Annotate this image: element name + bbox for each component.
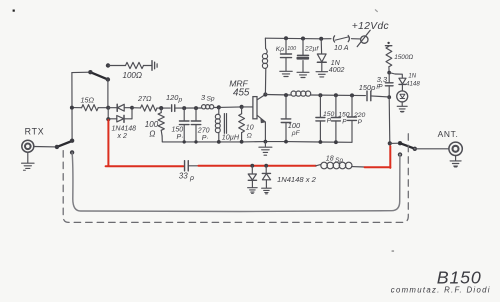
resistor 15Ω	[82, 105, 99, 111]
label 150 P (#1)	[172, 126, 184, 141]
label RTX	[25, 126, 45, 136]
label 220 P	[353, 112, 366, 126]
svg-text:100: 100	[288, 121, 301, 130]
svg-text:15Ω: 15Ω	[81, 96, 95, 105]
svg-text:4148: 4148	[406, 81, 420, 88]
label 150 P (out1)	[323, 111, 335, 125]
label 18 Sp	[326, 156, 344, 164]
label 10µH	[222, 133, 240, 142]
capacitor 150p output #1	[316, 95, 325, 142]
svg-text:1500Ω: 1500Ω	[394, 54, 413, 61]
capacitor 3,3P (series in riser)	[385, 73, 393, 97]
node clamp D1 junction dot	[250, 164, 254, 168]
capacitor 220p output	[348, 95, 357, 142]
inductor 18Sp	[321, 162, 352, 169]
svg-text:ρF: ρF	[291, 130, 301, 137]
inductor core lines	[224, 114, 226, 134]
wire 27Ω to node C	[157, 107, 170, 109]
node G junction dot	[240, 105, 244, 109]
title B150	[437, 267, 482, 287]
label 10 A	[334, 43, 349, 52]
svg-text:150: 150	[172, 126, 184, 133]
wire emitter to rail	[264, 122, 266, 142]
wire choke to +12 rail	[265, 38, 267, 54]
wire red path horizontal mid	[198, 165, 315, 167]
svg-text:100Ω: 100Ω	[123, 71, 142, 80]
lamp LED indicator	[397, 91, 408, 106]
wire red path horizontal left	[106, 165, 184, 167]
svg-text:P·: P·	[202, 135, 209, 142]
label 22µf	[304, 46, 319, 53]
wire switch to ANT connector	[415, 148, 449, 150]
capacitor Kp 100 (bypass)	[281, 38, 292, 71]
node C junction dot	[159, 106, 163, 110]
svg-text:P: P	[342, 119, 347, 126]
svg-text:1N4148 x 2: 1N4148 x 2	[277, 175, 317, 184]
svg-text:22µf: 22µf	[304, 46, 319, 53]
wire red path vertical right (up to ANT node)	[389, 146, 391, 168]
wire diode-pair right vertical	[131, 108, 133, 119]
ground (RTX connector)	[22, 152, 35, 170]
label 120p	[166, 93, 183, 104]
wire red path vertical (node A2 down)	[107, 120, 109, 166]
svg-text:Ω: Ω	[149, 130, 155, 139]
svg-text:Kρ: Kρ	[276, 46, 284, 53]
label ANT.	[438, 129, 459, 139]
diode 1N4148 clamp (right, points up)	[262, 166, 270, 188]
svg-text:Sρ: Sρ	[335, 157, 343, 164]
switch S1a lower contact dot	[106, 77, 110, 81]
switch S1c pivot dot	[55, 145, 59, 149]
label 27Ω	[137, 94, 152, 103]
connector +12Vdc (circle with slash)	[357, 30, 370, 46]
wire top-switch pivot stub	[72, 71, 91, 73]
svg-text:120: 120	[166, 93, 179, 102]
subtitle commutaz. R.F. Diodi	[391, 285, 491, 294]
svg-text:ρ: ρ	[189, 175, 194, 182]
svg-text:10µH: 10µH	[222, 133, 240, 142]
svg-text:P·: P·	[177, 134, 184, 141]
svg-text:100: 100	[287, 46, 296, 52]
wire S1a to main line	[107, 80, 109, 108]
svg-text:33: 33	[179, 172, 188, 181]
sideways ground (100Ω load)	[152, 61, 157, 71]
fuse F1 10A	[333, 36, 360, 43]
wire riser node I to ANT node	[388, 97, 391, 143]
svg-text:RTX: RTX	[25, 126, 45, 136]
resistor 100Ω termination	[126, 62, 144, 68]
stray speck near title	[392, 250, 395, 252]
svg-text:270: 270	[197, 127, 210, 134]
svg-text:Ω: Ω	[247, 132, 252, 139]
node D junction dot	[182, 106, 186, 110]
wire 15Ω to node A	[98, 107, 108, 109]
ground (1N4002)	[316, 72, 328, 77]
switch S1c lever (RTX)	[57, 141, 72, 147]
label 100Ω	[123, 71, 142, 80]
svg-text:x 2: x 2	[117, 133, 127, 140]
dashed linkage (ganged switches)	[63, 132, 408, 223]
wire 150pF to riser	[371, 96, 389, 97]
wire emitter ground rail	[162, 141, 352, 144]
node I junction dot	[387, 95, 391, 99]
node A junction dot	[106, 106, 110, 110]
inductor RF choke (collector feed)	[262, 54, 267, 69]
switch S1b pivot dot	[413, 147, 417, 151]
inductor L2 output (series)	[291, 91, 311, 96]
switch S1c bypass contact dot	[70, 150, 74, 154]
label 270 P	[197, 127, 210, 142]
label +12Vdc	[352, 21, 389, 32]
diode D1 1N4148 (upper, cathode left)	[108, 104, 132, 111]
node cap1 junction dot	[318, 93, 322, 97]
stray ink speck	[13, 10, 15, 12]
switch S1b bypass contact dot	[398, 152, 402, 156]
label 150p F	[359, 83, 381, 92]
label 1500Ω	[394, 54, 413, 61]
label MRF 455	[229, 78, 250, 98]
inductor 10µH choke (to rail)	[215, 107, 220, 141]
ground (22µF)	[297, 72, 309, 77]
svg-text:100: 100	[145, 120, 159, 129]
svg-text:10: 10	[246, 125, 254, 132]
connector RTX (coax)	[22, 140, 34, 152]
svg-text:+12Vdc: +12Vdc	[352, 21, 389, 32]
wire +12V rail	[265, 37, 331, 40]
node 15Ω tee junction dot	[70, 106, 74, 110]
switch S1b lever	[400, 143, 415, 149]
resistor 27Ω	[141, 105, 158, 111]
ground (clamp left)	[248, 188, 258, 194]
capacitor 22µF electrolytic	[297, 39, 310, 72]
wire bypass (RTX to ANT, gray)	[72, 152, 400, 211]
label 3,3 P	[377, 75, 388, 90]
label 15Ω	[81, 96, 95, 105]
wire 18Sp to red	[352, 166, 365, 168]
label 3Sp	[201, 93, 215, 103]
svg-text:10 A: 10 A	[334, 43, 349, 52]
resistor 100Ω shunt (vertical)	[158, 108, 164, 142]
connector ANT (coax)	[449, 142, 462, 155]
diode 1N4002 (supply clamp)	[317, 39, 326, 71]
wire RTX-switch riser (vertical x=72 from top switch to RTX switch contact)	[71, 73, 73, 141]
transistor Q1 emitter lead	[257, 115, 265, 122]
label 1N 4002	[329, 60, 345, 74]
wire ANT node to switch contact	[390, 142, 400, 144]
node red-start junction dot	[106, 117, 110, 121]
svg-text:P: P	[358, 119, 363, 126]
ground (Kp cap)	[280, 71, 293, 76]
svg-text:455: 455	[233, 88, 250, 99]
wire collector riser	[264, 69, 266, 95]
capacitor 150p F (series output)	[367, 91, 371, 101]
ground (ANT connector)	[450, 156, 461, 167]
switch S1a upper contact dot	[106, 63, 110, 67]
supply tap symbol above 1500Ω	[385, 42, 391, 46]
switch S1b contact dot (amp side)	[398, 141, 402, 145]
label 33p	[179, 172, 194, 182]
label 10 Ω	[246, 125, 254, 140]
node F junction dot	[217, 105, 221, 109]
svg-text:commutaz. R.F. Diodi: commutaz. R.F. Diodi	[391, 285, 491, 294]
wire red to 18Sp coil	[316, 164, 321, 165]
ground (clamp right)	[262, 188, 272, 194]
svg-text:4002: 4002	[329, 67, 345, 74]
svg-text:150ρ: 150ρ	[359, 83, 376, 92]
inductor L1 3Sp (series)	[202, 105, 214, 109]
svg-text:B150: B150	[437, 267, 482, 287]
resistor 10Ω (base shunt)	[239, 107, 245, 142]
node Kp junction dot	[284, 36, 288, 40]
wire node B to 27Ω	[132, 107, 141, 109]
node cap2 junction dot	[334, 93, 338, 97]
node H junction dot	[387, 71, 391, 75]
switch S1a pivot dot	[88, 70, 92, 74]
node 1N4002 junction dot	[319, 37, 323, 41]
ground (LED)	[397, 106, 407, 112]
label 150 P (out2)	[338, 112, 350, 126]
switch S1a lever (input selector, thrown down)	[90, 72, 107, 79]
svg-text:p: p	[178, 97, 183, 104]
diode 1N4148 (indicator feed)	[399, 78, 406, 91]
wire collector output line	[265, 94, 291, 97]
diode D2 1N4148 (lower, cathode right)	[108, 115, 132, 122]
capacitor 150p output #2	[331, 95, 340, 142]
wire resistor to sideways ground	[144, 65, 152, 67]
node ANT junction dot	[388, 141, 392, 145]
svg-text:18: 18	[326, 156, 334, 163]
node cap3 junction dot	[350, 93, 354, 97]
svg-text:27Ω: 27Ω	[137, 94, 152, 103]
label 1N 4148 (indicator)	[406, 73, 420, 87]
wire node G to base	[242, 106, 253, 108]
svg-text:3: 3	[201, 93, 206, 102]
resistor 1500Ω	[386, 46, 392, 67]
capacitor 100pF shunt	[281, 95, 291, 142]
transistor Q1 collector lead	[257, 95, 265, 100]
wire main input line	[72, 107, 82, 109]
diode 1N4148 clamp (left, points down)	[248, 166, 256, 188]
switch S1c upper contact dot	[70, 139, 74, 143]
svg-text:1N4148: 1N4148	[112, 126, 137, 133]
label 1N4148 x2	[112, 126, 137, 140]
wire red path horizontal right	[365, 166, 391, 168]
node B junction dot	[130, 106, 134, 110]
label 1N4148 x 2 (clamp)	[277, 175, 317, 184]
wire L2 to output caps	[311, 94, 366, 97]
capacitor 33p (series in red path)	[185, 161, 199, 171]
svg-text:1N: 1N	[408, 73, 416, 79]
svg-text:F: F	[376, 85, 380, 91]
node 100pF junction dot	[284, 93, 288, 97]
label 100 Ω (shunt)	[145, 120, 159, 139]
label Kp 100	[276, 46, 296, 53]
svg-text:Sp: Sp	[207, 96, 215, 103]
wire RTX connector to switch	[34, 146, 57, 148]
svg-text:1N: 1N	[331, 60, 341, 67]
svg-text:ANT.: ANT.	[438, 129, 459, 139]
rail junction dots	[183, 140, 338, 144]
wire node H to LED branch	[389, 73, 402, 78]
capacitor 270p shunt	[191, 108, 201, 142]
svg-text:220: 220	[353, 112, 366, 119]
wire from S1a upper contact to resistor R-term	[108, 65, 126, 67]
capacitor 150p shunt #1	[179, 108, 189, 142]
node 22µF junction dot	[301, 37, 305, 41]
capacitor 120p (series)	[172, 105, 175, 112]
wire node F to node G	[219, 106, 242, 109]
wire 1500Ω to node H	[388, 67, 390, 73]
node collector junction dot	[263, 92, 267, 96]
node E junction dot	[194, 106, 198, 110]
transistor Q1 MRF455 body bar	[253, 97, 257, 119]
stray pencil tick	[375, 10, 377, 12]
wire diode-pair left vertical	[107, 108, 109, 119]
label 100 pF	[288, 121, 301, 137]
node clamp D2 junction dot	[264, 164, 268, 168]
wire 120p to node D/E	[175, 107, 202, 109]
wire 3Sp to node F	[214, 106, 218, 108]
ground (emitter rail)	[259, 142, 272, 156]
